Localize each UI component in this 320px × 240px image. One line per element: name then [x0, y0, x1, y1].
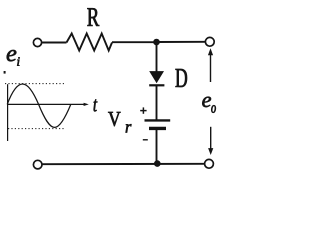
label Vr [108, 112, 120, 126]
node junction bottom [154, 160, 161, 167]
label R [87, 8, 99, 26]
wire battery to bottom rail [156, 130, 158, 164]
terminal input top-left [33, 38, 41, 46]
wire diode to battery [156, 86, 158, 120]
eo measure arrow down [208, 127, 213, 155]
node junction top [153, 39, 160, 46]
diode D [149, 72, 164, 86]
wire top-left to resistor [42, 42, 67, 44]
trough dotted line [8, 128, 64, 130]
terminal input bottom-left [33, 160, 42, 169]
label t [94, 99, 98, 111]
wire node to output terminal [157, 41, 206, 43]
plus sign of battery [140, 107, 146, 113]
sine wave ei [7, 84, 71, 127]
wire node down to diode [156, 42, 158, 72]
minus sign of battery [143, 139, 148, 141]
waveform y-axis [7, 84, 9, 141]
battery Vr plate positive long [145, 119, 171, 121]
label D [176, 69, 187, 87]
battery Vr plate negative short thick [149, 127, 166, 130]
wire resistor to node [112, 41, 157, 43]
terminal output bottom-right [205, 159, 214, 168]
label eo [202, 97, 211, 107]
terminal output top-right [205, 37, 214, 46]
eo measure arrow up [208, 48, 213, 82]
resistor R [67, 34, 113, 51]
t-axis arrowhead [84, 103, 89, 106]
stray dot under ei [4, 71, 6, 74]
peak dotted line [5, 83, 64, 85]
waveform t-axis [7, 103, 86, 105]
label ei [7, 50, 17, 61]
bottom rail wire [42, 163, 205, 165]
